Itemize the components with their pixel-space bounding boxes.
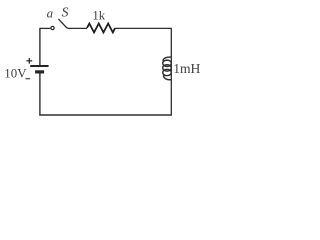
wire: switch to resistor bbox=[68, 27, 87, 29]
wire: resistor to top-right corner bbox=[115, 27, 171, 29]
wire: bottom horizontal bbox=[39, 114, 172, 116]
switch S blade (open) bbox=[58, 19, 68, 29]
svg-text:1mH: 1mH bbox=[173, 61, 200, 76]
wire: left vertical from battery - plate down to bottom-left corner bbox=[39, 73, 41, 116]
battery plus sign bbox=[26, 58, 32, 64]
svg-text:S: S bbox=[62, 5, 69, 20]
resistor R 1k zigzag bbox=[87, 24, 115, 33]
wire: left vertical from top corner down to battery + plate bbox=[39, 28, 41, 65]
svg-text:a: a bbox=[47, 7, 53, 21]
wire: top-left horizontal from corner to node a terminal bbox=[40, 27, 50, 29]
battery minus sign bbox=[26, 78, 31, 80]
battery V1 positive plate (long) bbox=[30, 65, 48, 67]
node a terminal circle bbox=[51, 26, 54, 29]
wire: right vertical bbox=[170, 28, 172, 115]
svg-text:10V: 10V bbox=[4, 66, 27, 80]
inductor L1 coil (3 loops) bbox=[163, 57, 172, 80]
battery V1 negative plate (short thick) bbox=[35, 70, 44, 73]
svg-text:1k: 1k bbox=[92, 9, 105, 23]
